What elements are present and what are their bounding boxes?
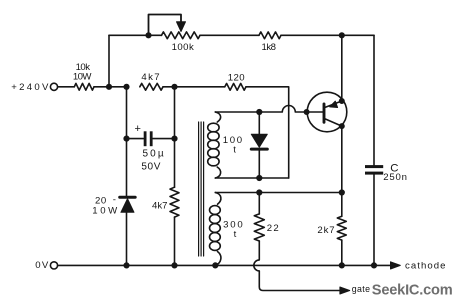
svg-text:4k7: 4k7 xyxy=(141,72,161,83)
wire 100t bottom rail xyxy=(215,177,288,179)
svg-text:+240V: +240V xyxy=(11,82,51,93)
resistor R7 2k7 xyxy=(337,193,346,266)
wire 100t top rail with hop to base xyxy=(215,106,306,112)
svg-text:-: - xyxy=(113,194,116,205)
svg-text:120: 120 xyxy=(228,73,245,84)
svg-text:10W: 10W xyxy=(73,71,92,82)
resistor R1 10k 10W xyxy=(58,83,94,90)
node emitter rail junction xyxy=(340,33,345,38)
svg-text:4k7: 4k7 xyxy=(152,201,167,212)
wire 0V cathode rail xyxy=(58,264,391,266)
potentiometer 100k xyxy=(162,32,201,39)
svg-text:SeekIC.com: SeekIC.com xyxy=(372,282,453,298)
svg-text:50µ: 50µ xyxy=(143,149,166,160)
arrow gate xyxy=(340,287,350,294)
winding 100t xyxy=(208,112,221,178)
node diode bottom xyxy=(257,176,262,181)
svg-text:22: 22 xyxy=(267,223,280,234)
wiper bracket of potentiometer xyxy=(149,15,186,36)
node capacitor bottom xyxy=(372,263,377,268)
node zener bottom xyxy=(124,263,129,268)
node 10k output junction xyxy=(107,85,112,90)
transformer core xyxy=(199,122,204,256)
wire top rail left xyxy=(109,34,162,36)
wire emitter to top rail xyxy=(341,35,343,101)
svg-text:250n: 250n xyxy=(383,172,408,183)
node rail left of 4k7 xyxy=(124,85,129,90)
winding 300t xyxy=(210,193,221,266)
arrow cathode xyxy=(391,262,401,269)
svg-text:t: t xyxy=(234,229,237,240)
resistor R4 120 xyxy=(225,83,246,90)
wire top rail right xyxy=(281,34,374,36)
resistor R2 1k8 xyxy=(259,32,281,39)
node pot left junction xyxy=(146,33,151,38)
wire collector down xyxy=(341,126,343,192)
node rail right of 4k7 xyxy=(172,85,177,90)
resistor R6 22 xyxy=(254,193,264,242)
capacitor C2 50u 50V electrolytic xyxy=(124,131,177,146)
svg-text:0V: 0V xyxy=(35,260,49,271)
resistor R5 4k7 vertical xyxy=(170,87,179,266)
node 2k7 bottom xyxy=(340,263,345,268)
node 22 top xyxy=(257,190,262,195)
svg-text:100k: 100k xyxy=(172,42,195,53)
diode D1 xyxy=(251,112,267,178)
node collector 2k7 junction xyxy=(340,190,345,195)
resistor R3 4k7 horizontal xyxy=(140,83,163,90)
capacitor C1 250n xyxy=(365,35,383,265)
svg-text:t: t xyxy=(233,145,236,156)
node 300t bottom xyxy=(213,263,218,268)
wire main rail segment R1 to node xyxy=(94,86,127,88)
node diode top xyxy=(257,110,262,115)
svg-text:10W: 10W xyxy=(92,205,120,216)
wire top rail middle xyxy=(200,34,259,36)
svg-text:cathode: cathode xyxy=(405,261,447,272)
terminal 0V xyxy=(50,262,57,269)
svg-text:1k8: 1k8 xyxy=(262,42,276,53)
wire rail to 120 xyxy=(163,86,225,88)
terminal +240V xyxy=(50,83,57,90)
wire 300t top rail xyxy=(215,192,341,194)
svg-text:2k7: 2k7 xyxy=(317,225,335,236)
svg-text:gate: gate xyxy=(352,284,371,294)
node 4k7 bottom xyxy=(172,263,177,268)
wire vertical to top rail xyxy=(108,35,110,87)
zener diode ZD 20V 10W xyxy=(120,197,136,265)
svg-text:50V: 50V xyxy=(141,161,161,172)
wire left branch upper xyxy=(126,87,128,196)
transistor Q1 xyxy=(304,92,346,132)
svg-text:+: + xyxy=(135,123,141,135)
wire 120 to corner and down xyxy=(246,87,289,178)
wire gate branch with hop over 0V rail xyxy=(254,241,340,291)
